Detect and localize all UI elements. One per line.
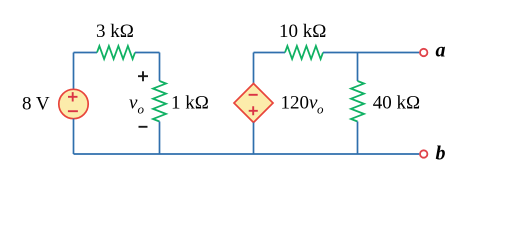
- svg-text:120vo: 120vo: [281, 93, 324, 117]
- resistor R 1k zigzag: [153, 81, 166, 122]
- svg-text:8 V: 8 V: [22, 94, 50, 115]
- wire: top-left horizontal left segment: [74, 52, 98, 54]
- wire: top-right horizontal right segment: [323, 52, 419, 54]
- dependent source diamond: [234, 84, 273, 123]
- wire: left vertical upper: [73, 53, 75, 90]
- dependent source branch upper wire: [253, 53, 255, 84]
- wire: bottom horizontal: [74, 153, 420, 155]
- minus sign inside diamond: [249, 94, 258, 96]
- svg-text:b: b: [436, 143, 446, 165]
- minus sign below vo: [139, 126, 148, 128]
- svg-text:3 kΩ: 3 kΩ: [96, 21, 134, 42]
- wire: left vertical lower: [73, 119, 75, 154]
- terminal b circle: [420, 150, 427, 157]
- minus sign inside source: [68, 110, 78, 112]
- wire: 40k branch upper: [357, 53, 359, 82]
- resistor R 3k zigzag: [97, 46, 135, 59]
- wire: 1k branch lower: [159, 122, 161, 155]
- svg-text:40 kΩ: 40 kΩ: [373, 93, 420, 114]
- voltage source 8V circle: [59, 89, 88, 118]
- wire: 1k branch upper: [159, 53, 161, 82]
- plus sign inside diamond: [249, 106, 258, 115]
- resistor R 40k zigzag: [351, 81, 364, 122]
- wire: top-left horizontal right segment: [135, 52, 160, 54]
- terminal a circle: [420, 49, 427, 56]
- wire: top-right horizontal left segment: [254, 52, 286, 54]
- svg-text:10 kΩ: 10 kΩ: [279, 21, 326, 42]
- svg-text:1 kΩ: 1 kΩ: [171, 93, 209, 114]
- resistor R 10k zigzag: [285, 46, 323, 59]
- svg-text:vo: vo: [129, 93, 144, 117]
- dependent source branch lower wire: [253, 123, 255, 155]
- wire: 40k branch lower: [357, 122, 359, 155]
- plus sign above vo: [138, 71, 148, 81]
- plus sign inside source: [68, 92, 78, 101]
- svg-text:a: a: [436, 40, 446, 62]
